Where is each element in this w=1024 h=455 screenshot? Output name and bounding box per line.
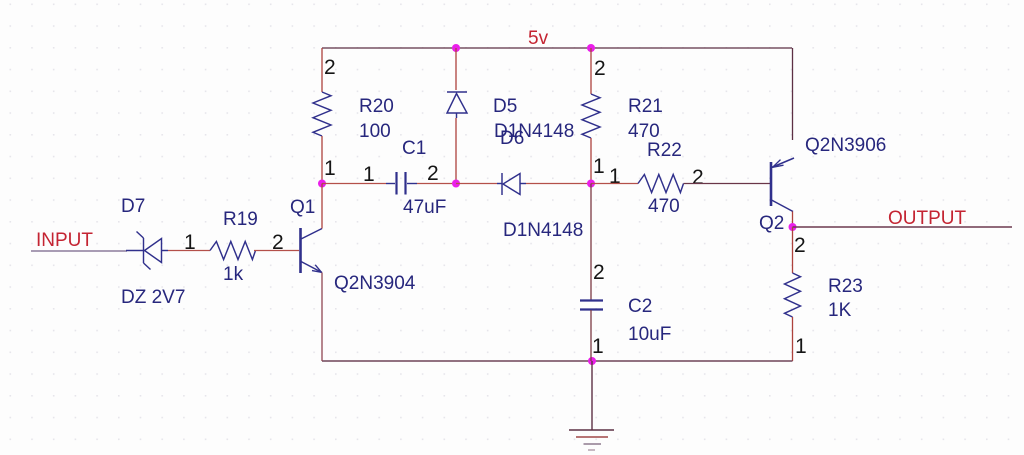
svg-text:1k: 1k [223, 264, 244, 285]
resistor R22 [638, 175, 684, 193]
svg-text:D1N4148: D1N4148 [503, 220, 583, 241]
svg-text:C1: C1 [402, 138, 426, 159]
wire right vertical from 5v bus to Q2 emitter [792, 48, 794, 140]
svg-text:Q1: Q1 [290, 197, 315, 218]
svg-text:R21: R21 [628, 96, 663, 117]
svg-text:470: 470 [648, 196, 680, 217]
svg-text:D6: D6 [500, 128, 524, 149]
wire bottom bus [322, 360, 793, 362]
svg-text:Q2: Q2 [759, 213, 784, 234]
wire R20 top lead [321, 48, 323, 92]
svg-text:100: 100 [359, 121, 391, 142]
wire R23 bottom lead [792, 317, 794, 361]
wire C1 to D5 node [417, 183, 456, 185]
resistor R20 [313, 92, 331, 136]
svg-text:470: 470 [628, 121, 660, 142]
svg-text:1: 1 [592, 335, 604, 358]
svg-text:2: 2 [324, 56, 336, 79]
node B (D6/R21/R22/C2) [587, 180, 595, 188]
wire R21 top lead [590, 48, 592, 94]
wire D7 to R19 [168, 250, 210, 252]
wire OUTPUT [793, 226, 1013, 228]
svg-text:1: 1 [324, 157, 336, 180]
node bottom bus / ground [588, 357, 596, 365]
svg-text:R20: R20 [359, 96, 394, 117]
svg-text:INPUT: INPUT [36, 230, 93, 251]
svg-text:Q2N3906: Q2N3906 [805, 135, 886, 156]
svg-text:DZ 2V7: DZ 2V7 [121, 287, 185, 308]
node A (R20/C1/Q1 collector) [318, 180, 326, 188]
node 5v/R21 junction [587, 44, 595, 52]
resistor R19 [210, 242, 256, 260]
svg-text:R22: R22 [647, 140, 682, 161]
node D5/C1/D6 junction [452, 180, 460, 188]
svg-text:D7: D7 [121, 196, 145, 217]
node 5v/D5 junction [452, 44, 460, 52]
svg-text:10uF: 10uF [628, 324, 671, 345]
ground [569, 430, 614, 450]
wire top 5v bus [322, 47, 792, 49]
wire D5 bottom lead [455, 118, 457, 184]
wire R21 bottom lead [590, 138, 592, 184]
svg-text:47uF: 47uF [403, 197, 446, 218]
diode D6 [497, 173, 526, 195]
wire ground stem [591, 361, 593, 430]
wire D6 to node B [526, 183, 591, 185]
capacitor C2 [580, 301, 603, 310]
wire R22 to Q2 base [684, 183, 771, 185]
svg-text:2: 2 [594, 57, 606, 80]
wire D5 top lead [455, 48, 457, 90]
svg-text:2: 2 [794, 234, 806, 257]
wire node B to R22 [591, 183, 638, 185]
svg-text:1: 1 [363, 163, 375, 186]
node OUTPUT/R23 [789, 223, 797, 231]
wire INPUT [31, 250, 127, 252]
diode D5 [447, 92, 467, 118]
svg-text:C2: C2 [628, 296, 652, 317]
svg-text:1: 1 [609, 165, 621, 188]
svg-text:5v: 5v [528, 28, 549, 49]
wire Q2 collector to node [792, 212, 794, 228]
wire Q1 emitter to bottom bus [321, 273, 323, 362]
wire C2 top lead [590, 184, 592, 301]
svg-text:2: 2 [692, 166, 704, 189]
zener diode D7 [126, 232, 168, 270]
transistor Q2 [771, 158, 794, 212]
wire R19 to Q1 base [254, 250, 299, 252]
wire node to D6 [456, 183, 497, 185]
capacitor C1 [386, 172, 417, 195]
wire node A to C1 [322, 183, 386, 185]
resistor R23 [785, 273, 801, 317]
svg-text:R19: R19 [223, 209, 258, 230]
svg-text:1: 1 [795, 335, 807, 358]
svg-text:1: 1 [184, 231, 196, 254]
wire R23 top lead [792, 227, 794, 273]
svg-text:D5: D5 [493, 96, 517, 117]
svg-text:1: 1 [593, 155, 605, 178]
svg-text:OUTPUT: OUTPUT [888, 208, 967, 229]
wire R20 bottom lead [321, 136, 323, 183]
svg-text:2: 2 [593, 261, 605, 284]
svg-text:2: 2 [427, 162, 439, 185]
wire C2 bottom lead [590, 310, 592, 361]
svg-text:R23: R23 [828, 276, 863, 297]
svg-text:1K: 1K [828, 300, 852, 321]
wire Q1 collector to node A [321, 184, 323, 229]
svg-text:Q2N3904: Q2N3904 [334, 273, 416, 294]
resistor R21 [582, 94, 600, 138]
transistor Q1 [301, 228, 323, 273]
